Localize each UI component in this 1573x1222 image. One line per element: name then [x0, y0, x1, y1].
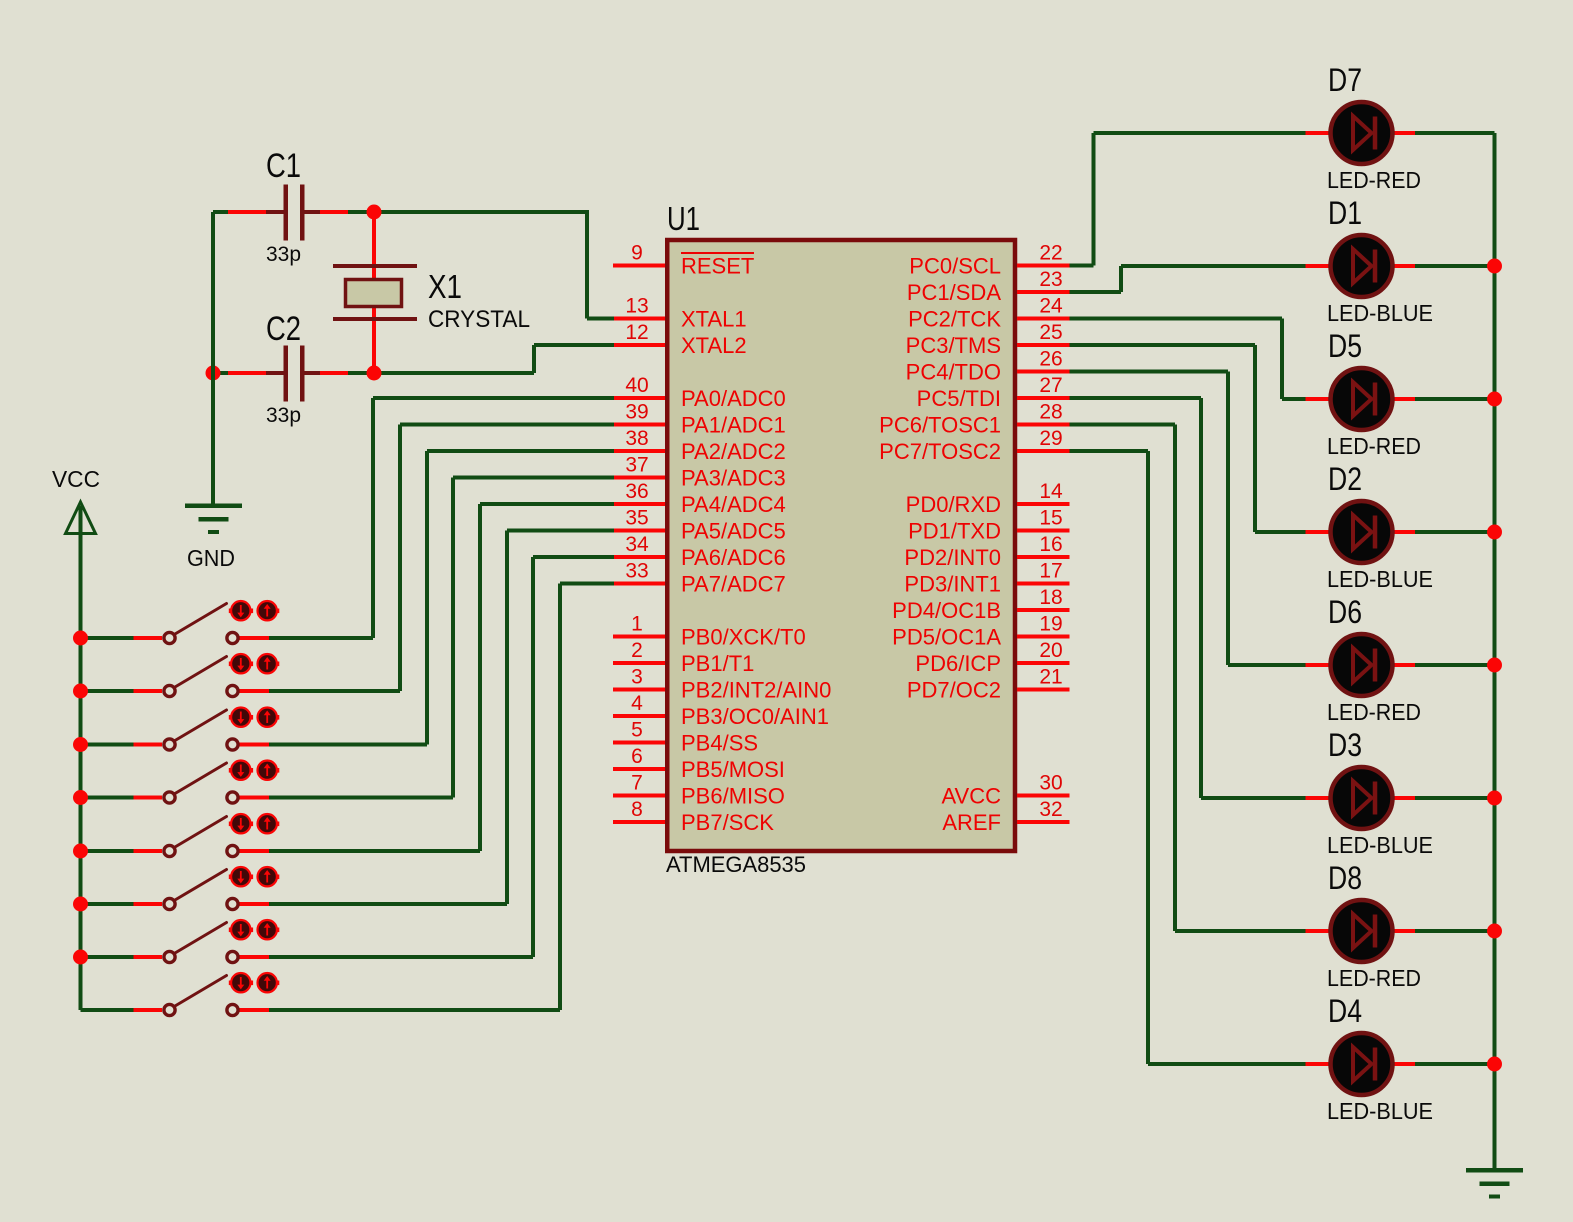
svg-text:LED-BLUE: LED-BLUE [1327, 832, 1433, 858]
svg-text:D5: D5 [1328, 328, 1362, 364]
svg-text:37: 37 [625, 454, 648, 477]
svg-text:4: 4 [631, 692, 643, 715]
svg-text:PB4/SS: PB4/SS [681, 731, 758, 756]
svg-text:1: 1 [631, 613, 643, 636]
svg-text:PB5/MOSI: PB5/MOSI [681, 757, 785, 782]
svg-text:PC6/TOSC1: PC6/TOSC1 [879, 413, 1001, 438]
svg-text:CRYSTAL: CRYSTAL [428, 306, 530, 333]
svg-text:PC0/SCL: PC0/SCL [909, 254, 1001, 279]
svg-text:C2: C2 [266, 310, 301, 348]
svg-text:D7: D7 [1328, 62, 1362, 98]
svg-text:PC2/TCK: PC2/TCK [908, 307, 1001, 332]
svg-text:29: 29 [1039, 427, 1062, 450]
svg-text:PB1/T1: PB1/T1 [681, 651, 754, 676]
svg-text:28: 28 [1039, 401, 1062, 424]
svg-text:14: 14 [1039, 480, 1063, 503]
svg-text:PC3/TMS: PC3/TMS [906, 333, 1001, 358]
svg-text:26: 26 [1039, 348, 1062, 371]
svg-text:27: 27 [1039, 374, 1062, 397]
svg-text:23: 23 [1039, 268, 1062, 291]
svg-text:LED-BLUE: LED-BLUE [1327, 566, 1433, 592]
svg-text:12: 12 [625, 321, 648, 344]
svg-text:7: 7 [631, 772, 643, 795]
svg-text:PA3/ADC3: PA3/ADC3 [681, 466, 786, 491]
svg-text:PA4/ADC4: PA4/ADC4 [681, 492, 786, 517]
svg-text:LED-BLUE: LED-BLUE [1327, 1098, 1433, 1124]
svg-text:XTAL1: XTAL1 [681, 307, 747, 332]
svg-text:PB6/MISO: PB6/MISO [681, 784, 785, 809]
svg-text:PD4/OC1B: PD4/OC1B [892, 598, 1001, 623]
svg-text:PD5/OC1A: PD5/OC1A [892, 625, 1001, 650]
svg-text:C1: C1 [266, 147, 301, 185]
svg-text:PD2/INT0: PD2/INT0 [904, 545, 1001, 570]
svg-text:8: 8 [631, 798, 643, 821]
svg-text:PD6/ICP: PD6/ICP [915, 651, 1001, 676]
svg-text:D8: D8 [1328, 860, 1362, 896]
svg-text:LED-RED: LED-RED [1327, 965, 1421, 991]
svg-text:LED-RED: LED-RED [1327, 167, 1421, 193]
svg-text:38: 38 [625, 427, 648, 450]
svg-text:XTAL2: XTAL2 [681, 333, 747, 358]
svg-text:22: 22 [1039, 242, 1062, 265]
svg-text:PC1/SDA: PC1/SDA [907, 280, 1001, 305]
svg-text:PA7/ADC7: PA7/ADC7 [681, 572, 786, 597]
svg-text:30: 30 [1039, 772, 1062, 795]
svg-text:13: 13 [625, 295, 648, 318]
svg-text:PB0/XCK/T0: PB0/XCK/T0 [681, 625, 806, 650]
svg-text:3: 3 [631, 666, 643, 689]
svg-text:19: 19 [1039, 613, 1062, 636]
svg-text:PA1/ADC1: PA1/ADC1 [681, 413, 786, 438]
svg-text:D4: D4 [1328, 993, 1362, 1029]
svg-text:AVCC: AVCC [942, 784, 1002, 809]
svg-text:PB7/SCK: PB7/SCK [681, 810, 774, 835]
svg-text:18: 18 [1039, 586, 1062, 609]
svg-text:40: 40 [625, 374, 648, 397]
svg-text:9: 9 [631, 242, 643, 265]
svg-text:VCC: VCC [52, 466, 100, 492]
svg-text:LED-BLUE: LED-BLUE [1327, 300, 1433, 326]
svg-text:X1: X1 [428, 268, 462, 305]
svg-text:33: 33 [625, 560, 648, 583]
svg-text:32: 32 [1039, 798, 1062, 821]
svg-text:D3: D3 [1328, 727, 1362, 763]
svg-text:D2: D2 [1328, 461, 1362, 497]
svg-text:LED-RED: LED-RED [1327, 699, 1421, 725]
svg-text:PD3/INT1: PD3/INT1 [904, 572, 1001, 597]
svg-text:PB3/OC0/AIN1: PB3/OC0/AIN1 [681, 704, 829, 729]
svg-text:25: 25 [1039, 321, 1062, 344]
svg-text:PD1/TXD: PD1/TXD [908, 519, 1001, 544]
svg-text:PD7/OC2: PD7/OC2 [907, 678, 1001, 703]
svg-text:34: 34 [625, 533, 649, 556]
svg-text:39: 39 [625, 401, 648, 424]
svg-text:PC7/TOSC2: PC7/TOSC2 [879, 439, 1001, 464]
svg-text:LED-RED: LED-RED [1327, 433, 1421, 459]
svg-text:17: 17 [1039, 560, 1062, 583]
svg-text:PC4/TDO: PC4/TDO [906, 360, 1001, 385]
svg-text:PD0/RXD: PD0/RXD [906, 492, 1001, 517]
svg-text:33p: 33p [266, 243, 301, 266]
svg-text:20: 20 [1039, 639, 1062, 662]
svg-text:5: 5 [631, 719, 643, 742]
svg-text:PC5/TDI: PC5/TDI [917, 386, 1001, 411]
svg-text:D1: D1 [1328, 195, 1362, 231]
svg-text:2: 2 [631, 639, 643, 662]
svg-text:RESET: RESET [681, 254, 754, 279]
svg-text:21: 21 [1039, 666, 1062, 689]
svg-text:D6: D6 [1328, 594, 1362, 630]
svg-text:15: 15 [1039, 507, 1062, 530]
svg-text:U1: U1 [667, 200, 700, 237]
svg-text:PA6/ADC6: PA6/ADC6 [681, 545, 786, 570]
svg-text:PB2/INT2/AIN0: PB2/INT2/AIN0 [681, 678, 831, 703]
svg-text:PA0/ADC0: PA0/ADC0 [681, 386, 786, 411]
svg-text:AREF: AREF [942, 810, 1001, 835]
svg-text:24: 24 [1039, 295, 1063, 318]
svg-text:ATMEGA8535: ATMEGA8535 [666, 852, 806, 877]
svg-text:PA5/ADC5: PA5/ADC5 [681, 519, 786, 544]
svg-text:6: 6 [631, 745, 643, 768]
svg-text:33p: 33p [266, 404, 301, 427]
svg-text:PA2/ADC2: PA2/ADC2 [681, 439, 786, 464]
svg-text:16: 16 [1039, 533, 1062, 556]
svg-text:GND: GND [187, 545, 235, 571]
svg-text:35: 35 [625, 507, 648, 530]
svg-text:36: 36 [625, 480, 648, 503]
